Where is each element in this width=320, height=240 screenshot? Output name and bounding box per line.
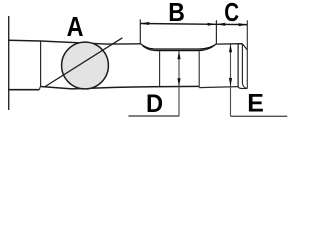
D bottom arrowhead	[177, 78, 180, 86]
neck dip upper line	[141, 44, 217, 49]
B left extension line	[139, 19, 141, 43]
cap top edge and chamfer	[238, 44, 247, 50]
neck dip lower line	[143, 45, 215, 50]
C right arrowhead	[239, 23, 248, 26]
shank top edge	[8, 39, 41, 42]
svg-text:E: E	[247, 90, 264, 118]
E dimension line	[230, 44, 232, 116]
svg-text:A: A	[67, 11, 84, 42]
body top edge right	[216, 43, 242, 45]
E top arrowhead	[229, 44, 232, 52]
svg-text:C: C	[224, 0, 239, 27]
C left extension line	[215, 20, 217, 44]
E label underline	[231, 115, 288, 117]
grinding wheel circle	[62, 42, 109, 89]
shank end face vertical	[40, 41, 42, 86]
cap left edge with bottom curve	[238, 44, 242, 89]
cap right edge / C right extension line	[246, 20, 248, 88]
C dimension line	[216, 23, 247, 25]
D dimension line	[178, 51, 180, 116]
E bottom arrowhead	[229, 78, 232, 86]
cap inner chamfer line	[242, 44, 247, 88]
cap bottom edge	[242, 88, 248, 90]
B right arrowhead	[208, 23, 217, 26]
body bottom edge (taper, under wheel, to collar)	[40, 86, 199, 89]
D label underline	[128, 115, 179, 117]
B dimension line	[140, 23, 216, 26]
D top arrowhead	[177, 51, 180, 59]
svg-text:D: D	[146, 90, 163, 118]
body bottom edge right section	[199, 87, 238, 88]
C left arrowhead	[217, 23, 226, 26]
left end face line	[8, 16, 10, 110]
svg-text:B: B	[168, 0, 185, 27]
neck left wall	[159, 51, 161, 86]
A leader diagonal	[44, 38, 122, 87]
B left arrowhead	[140, 22, 149, 25]
shank bottom edge	[8, 89, 39, 91]
body top edge (taper to neck start)	[41, 41, 141, 44]
shank step vertical	[38, 87, 41, 90]
neck right wall	[198, 51, 200, 87]
